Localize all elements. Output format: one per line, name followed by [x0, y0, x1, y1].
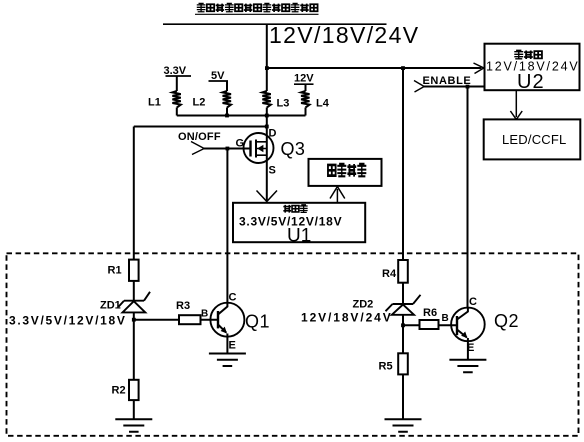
transistor Q2	[451, 308, 485, 359]
svg-text:R5: R5	[379, 361, 393, 373]
zener ZD1	[119, 292, 151, 313]
svg-text:R4: R4	[382, 268, 397, 280]
ground R2	[115, 419, 152, 432]
svg-text:R1: R1	[108, 265, 122, 277]
node dot R1 feed	[265, 125, 269, 129]
ON/OFF input arrow	[191, 142, 204, 155]
resistor R5	[398, 353, 408, 374]
svg-text:E: E	[229, 340, 236, 352]
ENABLE input arrow	[414, 81, 424, 93]
wire: main vertical from L3 to U1 arrow	[266, 108, 268, 201]
ground R5	[385, 419, 422, 432]
svg-text:E: E	[467, 342, 474, 354]
svg-text:Q1: Q1	[245, 312, 270, 332]
boost board box U2	[485, 44, 580, 90]
node dot main/branch	[265, 66, 269, 70]
LED/CCFL box	[484, 119, 581, 159]
inductor L4	[301, 91, 309, 108]
svg-text:R2: R2	[112, 385, 126, 397]
resistor R2	[129, 380, 139, 400]
ground Q1	[209, 354, 246, 367]
svg-text:Q3: Q3	[281, 139, 306, 159]
inductor L1	[172, 91, 180, 108]
title underline	[195, 13, 319, 15]
wire: R4 to ZD2	[402, 283, 404, 304]
wire: junction to R2	[133, 320, 135, 380]
svg-text:D: D	[269, 128, 277, 140]
inductor L2	[223, 91, 231, 108]
wire: R1 feed vertical	[133, 127, 135, 260]
svg-text:U2: U2	[517, 71, 545, 93]
wire: gate wire	[204, 148, 251, 150]
svg-text:ZD1: ZD1	[100, 300, 121, 312]
wire: junction to R6	[403, 324, 420, 326]
wire: L2 stub top	[226, 81, 228, 91]
svg-text:B: B	[201, 309, 208, 320]
wire: R3 to Q1 base	[201, 319, 219, 321]
wire: vertical to R4	[402, 68, 404, 260]
wire: L1 stub top	[176, 76, 178, 91]
wire: L4 stub top	[305, 84, 307, 91]
svg-text:12V: 12V	[294, 73, 314, 85]
svg-text:S: S	[269, 165, 276, 177]
wire: L1 stub bottom	[176, 108, 178, 116]
node dot gate/Q1	[226, 147, 230, 151]
resistor R4	[398, 260, 408, 283]
svg-text:LED/CCFL: LED/CCFL	[502, 132, 566, 147]
svg-text:B: B	[442, 313, 449, 324]
wire: ENABLE line	[424, 86, 485, 88]
svg-text:ZD2: ZD2	[353, 299, 374, 311]
svg-text:3.3V/5V/12V/18V: 3.3V/5V/12V/18V	[9, 314, 127, 328]
wire: R1 to ZD1	[133, 281, 135, 301]
svg-text:G: G	[236, 138, 245, 150]
wire: vertical to Q1 collector	[226, 149, 228, 303]
wire: junction to R3	[134, 319, 179, 321]
arrowhead into U1	[257, 191, 278, 202]
wire: R6 to Q2 base	[439, 324, 458, 326]
svg-text:L4: L4	[316, 98, 330, 110]
node dot R4 branch	[401, 66, 405, 70]
svg-text:R3: R3	[176, 300, 190, 312]
logic board box U1	[233, 203, 365, 242]
resistor R1	[129, 260, 139, 281]
transistor Q3	[244, 133, 274, 163]
wire: R5 to ground	[402, 374, 404, 418]
svg-text:C: C	[229, 292, 237, 304]
ground Q2	[449, 360, 486, 373]
wire: ZD1 to junction	[133, 312, 135, 319]
wire: vertical to Q2 collector	[467, 87, 469, 308]
port bar L2	[209, 80, 229, 82]
wire: main vertical from rule to L3	[266, 24, 268, 91]
wire: horizontal branch to U2	[267, 67, 482, 69]
zener ZD2	[386, 295, 421, 315]
svg-text:ENABLE: ENABLE	[423, 75, 472, 87]
port bar L4	[294, 83, 314, 85]
svg-text:L2: L2	[193, 97, 206, 109]
inductor L3	[262, 91, 270, 108]
wire: ZD2 to junction	[402, 315, 404, 326]
arrowhead to LED	[510, 111, 522, 119]
wire: U2 to LED arrow	[515, 90, 517, 117]
wire: U1 to LCD arrow	[336, 189, 338, 203]
wire: L2 stub bottom	[226, 108, 228, 116]
svg-text:U1: U1	[287, 226, 311, 247]
svg-text:R6: R6	[423, 307, 437, 319]
node dot L2/bus	[225, 114, 229, 118]
wire: bus under inductors	[177, 115, 306, 117]
resistor R6	[420, 320, 439, 329]
transistor Q1	[210, 303, 244, 353]
wire: junction to R5	[402, 325, 404, 353]
svg-text:12V/18V/24V: 12V/18V/24V	[301, 311, 393, 325]
node dot base junction Q1	[132, 318, 136, 322]
LCD glass box 液晶玻璃	[309, 159, 382, 186]
arrowhead to LCD	[330, 187, 345, 199]
node dot L3/bus	[265, 114, 269, 118]
svg-text:C: C	[469, 296, 477, 308]
port bar L1	[166, 75, 192, 77]
title text 外置电源适配器输入直流电源	[197, 3, 318, 11]
node dot base junction Q2	[401, 323, 405, 327]
wire: L4 stub bottom	[305, 108, 307, 116]
svg-text:Q2: Q2	[494, 311, 519, 331]
svg-text:L3: L3	[277, 98, 290, 110]
node dot ENABLE/Q2	[466, 85, 470, 89]
svg-text:L1: L1	[148, 97, 161, 109]
top horizontal rule	[163, 23, 387, 25]
wire: R1 feed horizontal	[134, 126, 267, 128]
arrowhead into U2	[474, 63, 484, 74]
svg-text:12V/18V/24V: 12V/18V/24V	[269, 22, 419, 48]
dashed region box	[7, 253, 579, 435]
wire: R2 to ground	[133, 400, 135, 418]
resistor R3	[179, 315, 201, 324]
svg-text:ON/OFF: ON/OFF	[178, 131, 221, 143]
